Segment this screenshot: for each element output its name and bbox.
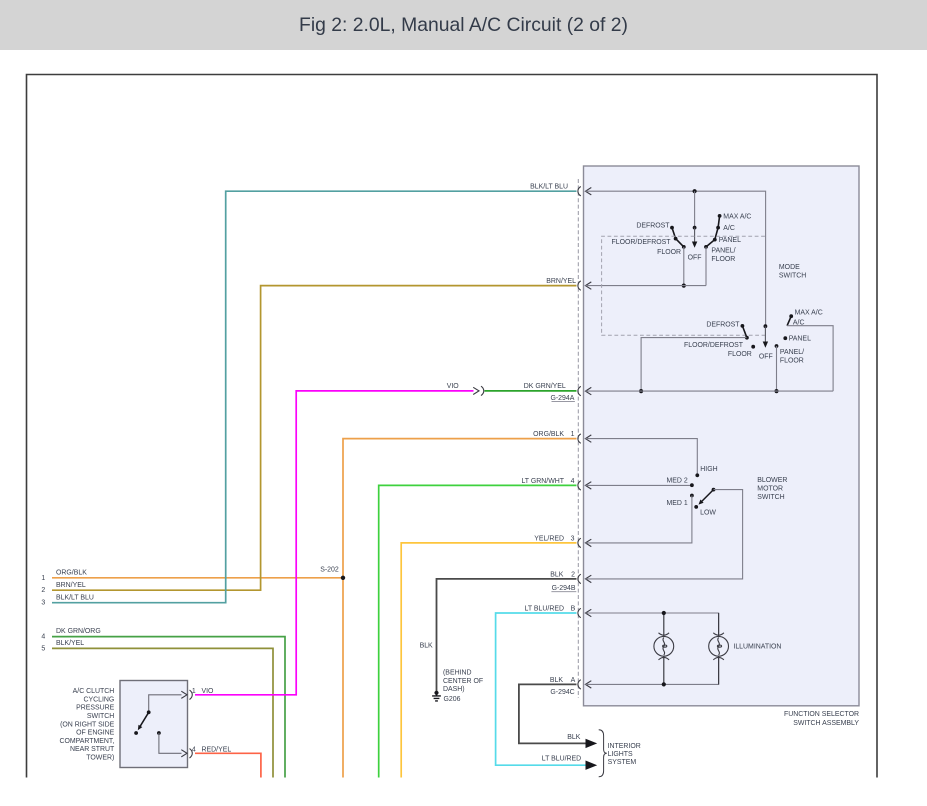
svg-text:OF ENGINE: OF ENGINE <box>76 730 115 737</box>
svg-text:BLK/LT BLU: BLK/LT BLU <box>56 594 94 601</box>
svg-text:Fig 2: 2.0L, Manual A/C Circui: Fig 2: 2.0L, Manual A/C Circuit (2 of 2) <box>299 14 628 36</box>
svg-text:MED 1: MED 1 <box>666 500 687 507</box>
mode switch lower FLOOR contact <box>751 345 755 349</box>
mode switch upper FLOOR contact <box>682 245 686 249</box>
svg-text:PANEL: PANEL <box>719 237 741 244</box>
mode switch lower PANEL/FLOOR contact <box>775 344 779 348</box>
blower wiper pivot dot <box>712 488 716 492</box>
wire RED/YEL from pressure switch pin 4 <box>195 753 261 777</box>
wire ORG/BLK vertical through splice S-202 up to selector pin 1 <box>343 439 577 778</box>
svg-text:1: 1 <box>41 575 45 582</box>
svg-text:TOWER): TOWER) <box>86 755 114 762</box>
net MED 1 to YEL/RED <box>585 496 692 543</box>
mode switch lower pole arrow <box>764 326 766 342</box>
mode switch gang dashed box <box>602 236 765 335</box>
svg-text:LT BLU/RED: LT BLU/RED <box>542 756 581 763</box>
svg-text:BLK: BLK <box>567 734 580 741</box>
mode switch lower rotary path right <box>787 316 791 326</box>
svg-text:SWITCH ASSEMBLY: SWITCH ASSEMBLY <box>793 720 859 727</box>
function selector switch assembly box <box>584 166 860 706</box>
svg-text:A/C: A/C <box>723 225 735 232</box>
svg-text:DEFROST: DEFROST <box>706 321 740 328</box>
wire ORG/BLK circuit 1 horizontal from pin 1 <box>52 577 343 579</box>
svg-text:MAX A/C: MAX A/C <box>723 213 751 220</box>
svg-text:OFF: OFF <box>759 354 773 361</box>
junction dot lamp 1 bottom <box>662 682 666 686</box>
mode switch lower MAX A/C contact <box>789 314 793 318</box>
illumination lamp 1 <box>654 633 674 660</box>
pressure switch contact dot upper <box>147 710 151 714</box>
illumination lamp 2 leads <box>718 613 720 684</box>
svg-text:MAX A/C: MAX A/C <box>795 310 823 317</box>
svg-text:FLOOR: FLOOR <box>711 256 735 263</box>
svg-text:SWITCH: SWITCH <box>779 272 806 279</box>
svg-text:MOTOR: MOTOR <box>757 486 783 493</box>
net FLOOR/DEFROST to DK GRN/YEL <box>641 338 746 392</box>
wire DK GRN/YEL to selector <box>485 390 577 392</box>
illumination lamp 1 leads <box>663 613 665 684</box>
svg-text:3: 3 <box>41 600 45 607</box>
mode switch lower FLOOR/DEFROST contact <box>745 336 749 340</box>
connector entry LT BLU/RED pin B at selector <box>578 608 591 617</box>
header bar <box>0 0 927 50</box>
svg-text:DEFROST: DEFROST <box>636 222 670 229</box>
svg-text:G-294B: G-294B <box>552 585 576 592</box>
wire DK GRN/ORG circuit 4 <box>52 637 285 778</box>
connector entry LT GRN/WHT pin 4 at selector <box>578 481 591 490</box>
blower LOW contact <box>694 505 698 509</box>
svg-text:BRN/YEL: BRN/YEL <box>56 582 86 589</box>
svg-text:FLOOR: FLOOR <box>728 351 752 358</box>
svg-text:DK GRN/YEL: DK GRN/YEL <box>524 383 566 390</box>
svg-text:ORG/BLK: ORG/BLK <box>56 569 87 576</box>
wire LT GRN/WHT circuit 4 <box>379 485 577 777</box>
svg-text:COMPARTMENT,: COMPARTMENT, <box>59 738 114 745</box>
svg-text:3: 3 <box>571 535 575 542</box>
svg-text:1: 1 <box>571 431 575 438</box>
net ORG/BLK to HIGH contact <box>585 439 697 476</box>
pressure switch internal lead pin 4 <box>159 733 182 753</box>
junction dot lamp 1 top <box>662 611 666 615</box>
connector entry ORG/BLK pin 1 at selector <box>578 434 591 443</box>
net DK GRN/YEL inside selector <box>585 390 833 392</box>
mode switch upper FLOOR/DEFROST contact <box>674 237 678 241</box>
pressure switch pin 1 arrow <box>181 691 187 698</box>
mode switch upper DEFROST contact <box>670 226 674 230</box>
svg-text:(ON RIGHT SIDE: (ON RIGHT SIDE <box>60 721 115 728</box>
junction dot DK GRN/YEL right <box>774 389 778 393</box>
wire YEL/RED circuit 3 <box>401 543 576 778</box>
mode switch lower DEFROST contact <box>741 324 745 328</box>
ground G206 symbol <box>432 691 441 701</box>
arrow LT BLU/RED into interior lights system <box>586 761 598 770</box>
net BRN/YEL inside selector <box>585 285 706 287</box>
wire BLK/YEL circuit 5 <box>52 648 273 777</box>
svg-text:PANEL/: PANEL/ <box>711 247 735 254</box>
net PANEL/FLOOR to DK GRN/YEL <box>776 346 778 391</box>
junction dot on BRN/YEL net <box>682 284 686 288</box>
connector entry BRN/YEL at selector <box>578 281 591 290</box>
blower HIGH contact <box>695 473 699 477</box>
net blower pole to BLK 2 <box>585 490 742 579</box>
svg-text:SWITCH: SWITCH <box>757 494 784 501</box>
svg-text:G206: G206 <box>444 696 461 703</box>
svg-text:LT BLU/RED: LT BLU/RED <box>525 605 564 612</box>
pressure switch contact dot lower-left <box>134 731 138 735</box>
pressure switch contact dot lower-right <box>157 731 161 735</box>
svg-text:S-202: S-202 <box>320 567 339 574</box>
mode switch upper rotary path right <box>706 216 720 247</box>
svg-text:4: 4 <box>41 634 45 641</box>
mode switch upper pole dot <box>693 226 697 230</box>
svg-text:2: 2 <box>571 571 575 578</box>
svg-text:4: 4 <box>571 478 575 485</box>
svg-text:LT GRN/WHT: LT GRN/WHT <box>521 478 564 485</box>
mode switch lower PANEL contact <box>783 336 787 340</box>
svg-text:BLK/YEL: BLK/YEL <box>56 640 84 647</box>
svg-text:FLOOR/DEFROST: FLOOR/DEFROST <box>612 239 672 246</box>
net A/C contact to DK GRN/YEL <box>787 326 833 391</box>
mode switch lower pole dot <box>764 324 768 328</box>
wire BLK pin A to interior lights <box>519 684 586 743</box>
interior lights system brace <box>599 730 607 777</box>
mode switch upper pole arrow <box>694 228 696 242</box>
svg-text:VIO: VIO <box>447 383 460 390</box>
svg-text:CYCLING: CYCLING <box>83 696 114 703</box>
net PANEL/FLOOR contact to BRN/YEL <box>705 247 707 286</box>
svg-text:2: 2 <box>41 587 45 594</box>
mode switch upper MAX A/C contact <box>718 214 722 218</box>
svg-text:FLOOR: FLOOR <box>780 358 804 365</box>
connector entry BLK pin 2 at selector <box>578 574 591 583</box>
net FLOOR contact to BRN/YEL <box>683 247 685 286</box>
svg-text:G-294A: G-294A <box>550 395 574 402</box>
arrow BLK into interior lights system <box>586 739 598 748</box>
wire BRN/YEL circuit 2 <box>52 286 577 591</box>
connector entry YEL/RED pin 3 at selector <box>578 538 591 547</box>
wire BLK circuit 2 to ground G206 <box>437 579 577 692</box>
svg-text:G-294C: G-294C <box>550 689 574 696</box>
svg-text:LOW: LOW <box>700 510 716 517</box>
pressure switch internal lead pin 1 <box>149 695 182 713</box>
wire VIO from pressure switch pin 1 <box>195 391 474 695</box>
svg-text:BRN/YEL: BRN/YEL <box>546 278 576 285</box>
net LT BLU/RED illumination top rail <box>585 613 718 636</box>
wire BLK/LT BLU circuit 3 <box>52 191 577 603</box>
svg-text:PANEL: PANEL <box>789 336 811 343</box>
svg-text:BLOWER: BLOWER <box>757 477 787 484</box>
connector C-294 dashed line <box>577 179 579 698</box>
svg-text:(BEHIND: (BEHIND <box>443 670 472 677</box>
net BLK/LT BLU inside selector <box>585 191 765 326</box>
svg-text:HIGH: HIGH <box>700 466 717 473</box>
net LT GRN/WHT to MED 2 contact <box>585 484 692 486</box>
mode switch upper PANEL contact <box>713 238 717 242</box>
svg-text:BLK: BLK <box>420 642 433 649</box>
svg-text:SYSTEM: SYSTEM <box>608 759 637 766</box>
splice S-202 dot <box>341 576 345 580</box>
blower wiper arm <box>702 490 714 502</box>
mode switch upper rotary path left <box>672 228 684 247</box>
svg-text:PRESSURE: PRESSURE <box>76 705 115 712</box>
mode switch lower rotary path left <box>742 326 747 338</box>
svg-text:DK GRN/ORG: DK GRN/ORG <box>56 628 101 635</box>
junction dot DK GRN/YEL left <box>639 389 643 393</box>
svg-text:B: B <box>571 606 576 613</box>
svg-text:BLK: BLK <box>550 677 563 684</box>
svg-text:FUNCTION SELECTOR: FUNCTION SELECTOR <box>784 711 859 718</box>
connector entry BLK pin A at selector <box>578 680 591 689</box>
svg-text:A/C CLUTCH: A/C CLUTCH <box>73 688 115 695</box>
pressure switch pin 4 arrow <box>181 750 187 757</box>
svg-text:PANEL/: PANEL/ <box>780 349 804 356</box>
svg-text:FLOOR/DEFROST: FLOOR/DEFROST <box>684 342 744 349</box>
inline connector VIO to DK GRN/YEL <box>473 387 479 394</box>
svg-text:A: A <box>571 677 576 684</box>
mode switch upper A/C contact <box>716 226 720 230</box>
svg-text:DASH): DASH) <box>443 686 465 693</box>
svg-text:BLK/LT BLU: BLK/LT BLU <box>530 184 568 191</box>
svg-text:BLK: BLK <box>550 571 563 578</box>
mode switch upper PANEL/FLOOR contact <box>704 245 708 249</box>
svg-text:YEL/RED: YEL/RED <box>534 535 564 542</box>
svg-text:LIGHTS: LIGHTS <box>608 751 633 758</box>
svg-text:INTERIOR: INTERIOR <box>608 743 641 750</box>
svg-text:ILLUMINATION: ILLUMINATION <box>733 644 781 651</box>
svg-text:FLOOR: FLOOR <box>657 249 681 256</box>
illumination lamp 2 <box>709 633 729 660</box>
mode switch upper pole line <box>694 191 696 227</box>
svg-text:OFF: OFF <box>688 255 702 262</box>
svg-text:MODE: MODE <box>779 264 800 271</box>
connector entry DK GRN/YEL at selector <box>578 386 591 395</box>
svg-text:SWITCH: SWITCH <box>87 713 114 720</box>
blower MED 1 contact <box>690 494 694 498</box>
svg-text:CENTER OF: CENTER OF <box>443 678 483 685</box>
svg-text:NEAR STRUT: NEAR STRUT <box>70 746 115 753</box>
svg-text:5: 5 <box>41 645 45 652</box>
wire LT BLU/RED to interior lights <box>496 613 586 765</box>
svg-text:MED 2: MED 2 <box>666 478 687 485</box>
a/c clutch cycling pressure switch box <box>120 681 188 768</box>
svg-text:ORG/BLK: ORG/BLK <box>533 431 564 438</box>
pressure switch wiper arm <box>140 712 149 726</box>
junction dot feed to mode switch pole <box>693 189 697 193</box>
blower MED 2 contact <box>690 483 694 487</box>
net BLK A illumination bottom rail <box>585 656 718 684</box>
connector entry BLK/LT BLU at selector <box>578 187 591 196</box>
